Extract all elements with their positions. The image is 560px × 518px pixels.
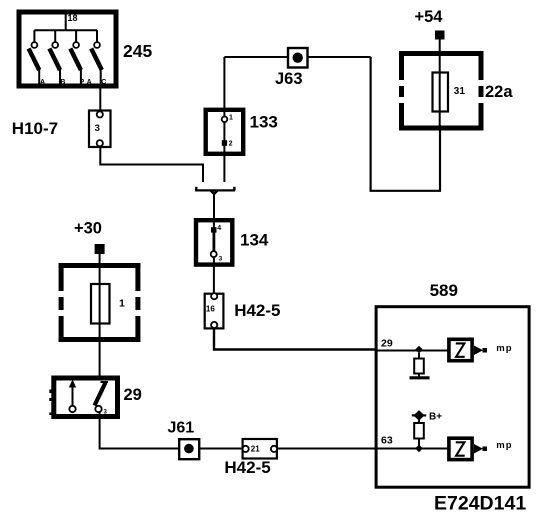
svg-text:+30: +30 — [74, 220, 102, 238]
svg-text:21: 21 — [251, 445, 260, 454]
svg-text:E724D141: E724D141 — [434, 493, 526, 515]
svg-text:mp: mp — [496, 343, 512, 354]
svg-text:31: 31 — [454, 86, 466, 97]
svg-text:3: 3 — [219, 256, 223, 263]
svg-text:J61: J61 — [168, 420, 195, 437]
svg-text:A: A — [40, 79, 45, 86]
svg-text:J63: J63 — [275, 70, 303, 88]
svg-text:H42-5: H42-5 — [234, 301, 280, 320]
svg-text:29: 29 — [381, 338, 393, 350]
svg-text:1: 1 — [229, 114, 233, 121]
svg-text:C: C — [101, 79, 106, 86]
svg-text:18: 18 — [68, 13, 78, 23]
svg-text:mp: mp — [496, 440, 512, 451]
svg-text:+54: +54 — [415, 8, 444, 26]
svg-text:H42-5: H42-5 — [224, 458, 270, 477]
svg-text:1: 1 — [119, 297, 125, 309]
svg-text:B: B — [60, 79, 65, 86]
svg-text:133: 133 — [250, 113, 278, 132]
svg-text:H10-7: H10-7 — [12, 119, 58, 138]
svg-text:63: 63 — [381, 435, 393, 447]
svg-text:A: A — [87, 79, 92, 86]
svg-text:P: P — [80, 79, 85, 86]
svg-text:3: 3 — [95, 123, 100, 134]
svg-text:B+: B+ — [429, 411, 442, 422]
svg-text:245: 245 — [123, 41, 152, 61]
svg-text:4: 4 — [217, 225, 221, 232]
svg-text:22a: 22a — [485, 83, 513, 101]
svg-text:16: 16 — [206, 305, 215, 314]
svg-text:29: 29 — [124, 386, 142, 404]
svg-text:589: 589 — [430, 281, 458, 300]
svg-text:134: 134 — [240, 230, 269, 249]
svg-text:2: 2 — [229, 141, 233, 148]
